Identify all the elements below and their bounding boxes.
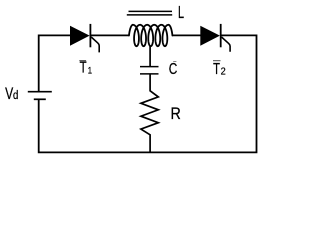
thyristor T1 triangle [70,26,90,46]
label R [171,105,181,123]
wire: coil center node down to capacitor [149,46,151,66]
inductor L coil [129,25,172,46]
wire: inductor to T2 [172,34,201,36]
svg-text:1: 1 [88,65,92,76]
svg-text:T: T [80,59,87,76]
label T2 [213,59,220,78]
label C [169,59,178,77]
inductor core bar 2 [127,14,172,16]
wire: top-left corner and left rail down to battery top [39,35,71,91]
battery Vd bottom plate [34,98,46,100]
battery Vd top plate [28,91,52,93]
label L [178,3,184,22]
svg-text:C: C [169,59,178,77]
thyristor T2 gate [222,37,231,52]
svg-text:T: T [213,59,220,78]
svg-text:L: L [178,3,184,22]
label T2 overline [213,60,221,61]
thyristor T1 cathode bar [89,24,91,47]
resistor R zigzag with leads [141,75,158,153]
svg-text:2: 2 [221,66,226,78]
label T1 overline [79,60,86,61]
wire: T2 cathode, right rail, bottom rail, up to battery bottom [39,35,257,152]
svg-text:d: d [13,89,18,102]
label C macron [173,61,176,62]
label T1 [80,59,87,76]
thyristor T2 cathode bar [220,24,222,47]
capacitor C top plate [140,66,159,68]
svg-text:R: R [171,105,181,123]
capacitor C bottom plate [140,73,159,75]
label Vd [5,85,13,103]
thyristor T2 triangle [200,26,220,46]
wire: T1 cathode to inductor [90,34,129,36]
thyristor T1 gate [91,37,99,52]
inductor core bar 1 [129,10,173,12]
